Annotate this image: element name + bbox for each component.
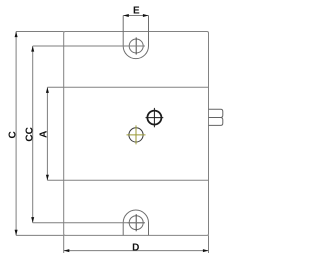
extension line D right — [208, 235, 210, 253]
arrow CC top — [31, 46, 34, 52]
dimension line E — [123, 15, 148, 17]
svg-text:E: E — [133, 6, 140, 17]
arrow D right — [203, 249, 209, 252]
bottom lug hole — [128, 214, 145, 231]
top lug hole — [128, 37, 145, 54]
arrow CC bottom — [31, 217, 34, 223]
right tab upper — [209, 109, 223, 117]
extension line CC top (to hole centerline, through hole crosshair) — [33, 45, 145, 47]
arrow E left — [123, 14, 129, 17]
svg-text:A: A — [38, 131, 49, 138]
arrow D left — [64, 249, 70, 252]
svg-text:C: C — [7, 131, 18, 138]
right tab lower — [209, 118, 223, 126]
lower section divider — [64, 179, 209, 181]
upper section divider — [64, 86, 209, 88]
arrow C top — [15, 32, 18, 38]
svg-text:CC: CC — [25, 127, 36, 141]
svg-text:D: D — [132, 242, 139, 253]
arrow E right — [143, 14, 149, 17]
dimension line D — [64, 250, 209, 252]
extension line A top — [47, 86, 63, 88]
dimension line A — [46, 87, 48, 180]
arrow A top — [46, 87, 49, 93]
dimension line CC — [32, 46, 34, 223]
extension line C top / body top collinear — [16, 31, 64, 33]
bottom lug — [123, 210, 148, 235]
center circle U2 (olive crosshair) — [127, 125, 146, 144]
extension line A bottom — [47, 179, 63, 181]
extension line CC bottom (through hole crosshair) — [33, 222, 145, 224]
extension line C bottom — [16, 234, 64, 236]
top lug — [123, 16, 148, 59]
dimension line C — [15, 32, 17, 236]
body outline — [64, 32, 209, 236]
arrow C bottom — [15, 230, 18, 236]
extension line D left — [63, 235, 65, 253]
center circle U1 (dark) — [146, 108, 164, 127]
arrow A bottom — [46, 175, 49, 181]
